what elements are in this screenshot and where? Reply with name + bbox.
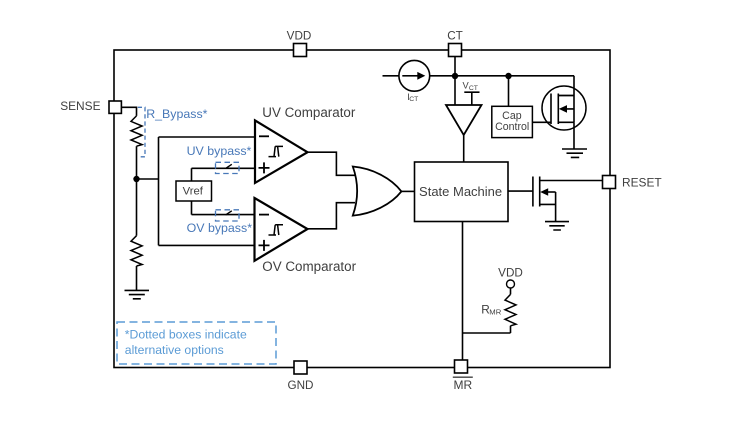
svg-text:CT: CT [469,85,478,92]
svg-text:Vref: Vref [183,185,204,197]
svg-text:State Machine: State Machine [419,184,502,199]
svg-text:RESET: RESET [622,175,662,189]
svg-text:SENSE: SENSE [60,99,100,113]
svg-text:R_Bypass*: R_Bypass* [146,107,207,121]
svg-text:OV bypass*: OV bypass* [187,221,253,235]
svg-text:OV Comparator: OV Comparator [262,259,356,274]
svg-text:VDD: VDD [287,30,312,43]
svg-text:UV Comparator: UV Comparator [262,105,356,120]
svg-text:*Dotted boxes indicate: *Dotted boxes indicate [125,328,247,342]
svg-text:Cap: Cap [502,110,522,122]
svg-text:UV bypass*: UV bypass* [187,144,252,158]
svg-text:MR: MR [453,378,472,392]
svg-text:VDD: VDD [498,266,523,279]
svg-text:CT: CT [409,96,418,103]
svg-text:CT: CT [447,30,463,43]
svg-text:MR: MR [489,308,501,317]
svg-text:Control: Control [495,121,529,133]
svg-text:GND: GND [288,379,314,392]
svg-text:alternative options: alternative options [125,343,224,357]
